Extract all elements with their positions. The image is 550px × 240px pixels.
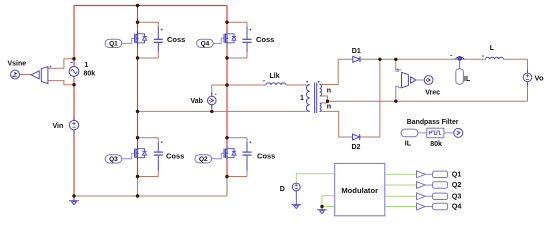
wire node B to Llk to transformer <box>212 84 310 86</box>
inductor Llk <box>266 83 286 85</box>
svg-text:Q4: Q4 <box>201 40 210 47</box>
svg-text:D1: D1 <box>352 48 361 55</box>
svg-text:Coss: Coss <box>256 35 274 44</box>
wire left rail <box>73 6 75 197</box>
label tag IL (bandpass input) <box>401 129 418 137</box>
svg-text:Vo: Vo <box>535 73 545 82</box>
diode D1 <box>353 56 360 62</box>
svg-text:Coss: Coss <box>166 151 184 160</box>
wire Vrec sense riser <box>395 59 397 101</box>
source 1/80k (modulation source) <box>69 63 79 77</box>
gate label Q4 <box>197 39 214 47</box>
gate label Q1 <box>105 39 122 47</box>
wire secondary top to D1 rail <box>320 59 353 84</box>
source D <box>292 183 300 205</box>
ground (modulator ref) <box>317 207 327 210</box>
label tag Q4 <box>433 203 448 209</box>
wire modulator output 2 <box>385 184 417 186</box>
wire Coss branch Q4 <box>227 22 247 58</box>
wire gate lead Q1 <box>122 38 135 43</box>
label tag Q3 <box>433 193 448 199</box>
svg-text:Q1: Q1 <box>109 40 118 47</box>
wire IL tag to filter <box>418 132 427 134</box>
svg-text:D: D <box>280 186 285 193</box>
transformer secondary top winding <box>320 85 322 97</box>
wire top rail <box>74 5 227 7</box>
gate label Q2 <box>195 155 212 163</box>
wire leg B (Q4/Q2) <box>226 6 228 177</box>
svg-text:n: n <box>327 103 331 110</box>
svg-text:Vrec: Vrec <box>425 89 440 96</box>
wire rectifier join riser <box>379 59 381 137</box>
wire Coss branch Q2 <box>227 138 247 177</box>
label tag Q2 <box>433 182 448 188</box>
ground (D source) <box>292 204 302 206</box>
wire Vsine sensor bottom stub <box>48 81 74 85</box>
svg-text:Q3: Q3 <box>452 192 462 201</box>
svg-text:Vsine: Vsine <box>8 61 27 68</box>
transformer polarity dots <box>306 81 308 83</box>
wire gate lead Q4 <box>212 38 224 43</box>
capacitor Coss (Q4) <box>246 22 248 58</box>
wire bottom rail <box>74 195 227 197</box>
inductor L <box>486 57 504 59</box>
probe (bandpass output) <box>454 128 463 137</box>
probe tag IL <box>459 61 461 69</box>
wire modulator output 1 <box>385 173 417 175</box>
transformer core <box>315 83 317 114</box>
wire modulator output 3 <box>385 195 417 197</box>
wire filter to probe <box>444 132 454 134</box>
filter block 80k <box>427 128 444 138</box>
block Modulator <box>335 163 385 215</box>
wire D1 cathode rail to output corner <box>361 58 528 60</box>
svg-text:Coss: Coss <box>257 151 275 160</box>
svg-text:IL: IL <box>405 140 412 147</box>
wire Vsine sensor top stub <box>48 59 74 69</box>
wire Vrec sensor hooks <box>396 70 402 88</box>
wire secondary bottom to D2 <box>320 111 353 137</box>
wire node A to transformer primary bottom <box>138 110 310 112</box>
buffer output Q1 <box>417 171 426 178</box>
svg-text:Q2: Q2 <box>452 180 462 189</box>
capacitor Coss (Q3) <box>157 138 159 177</box>
wire Vab probe leads <box>211 85 213 111</box>
svg-text:Llk: Llk <box>270 73 280 80</box>
ground (main bridge) <box>69 196 79 201</box>
svg-text:Vin: Vin <box>53 123 64 130</box>
wire Coss branch Q1 <box>138 22 159 58</box>
svg-text:1: 1 <box>85 62 89 69</box>
wire gate lead Q3 <box>122 153 135 159</box>
buffer output Q4 <box>417 203 426 210</box>
svg-text:n: n <box>327 88 331 95</box>
sensor amplifier (Vsine side) <box>31 71 39 79</box>
transistor Q3 <box>135 146 147 161</box>
wire Coss branch Q3 <box>138 138 159 177</box>
junction dots <box>136 4 139 7</box>
svg-text:Modulator: Modulator <box>341 186 378 195</box>
current sensor IL <box>457 56 462 61</box>
probe Vrec <box>424 76 433 85</box>
svg-text:+: + <box>49 64 52 69</box>
wire output right rail <box>527 59 529 101</box>
capacitor Coss (Q2) <box>246 138 248 177</box>
svg-text:+: + <box>396 67 399 72</box>
capacitor Coss (Q1) <box>157 22 159 58</box>
svg-text:Bandpass Filter: Bandpass Filter <box>407 119 459 126</box>
buffer output Q2 <box>417 182 426 189</box>
svg-text:IL: IL <box>464 76 471 83</box>
source Vin <box>69 117 78 134</box>
transistor Q2 <box>224 146 236 161</box>
buffer output Q3 <box>417 193 426 200</box>
source Vo <box>523 70 532 85</box>
wire D2 cathode to riser <box>360 136 380 138</box>
svg-text:D2: D2 <box>352 144 361 151</box>
transistor Q4 <box>224 31 236 46</box>
transformer primary winding <box>306 85 309 112</box>
svg-text:Q2: Q2 <box>199 156 208 163</box>
wire D source to modulator <box>296 174 334 183</box>
svg-text:Vab: Vab <box>191 98 203 105</box>
svg-text:80k: 80k <box>430 141 442 148</box>
voltmeter Vab <box>208 92 218 109</box>
svg-text:1: 1 <box>300 95 304 102</box>
svg-text:80k: 80k <box>84 70 96 77</box>
gate label Q3 <box>105 155 122 163</box>
wire leg A (Q1/Q3) <box>137 6 139 177</box>
transformer secondary bottom winding <box>320 103 321 111</box>
svg-text:Coss: Coss <box>167 35 185 44</box>
svg-text:Q4: Q4 <box>452 202 462 211</box>
svg-text:Q1: Q1 <box>452 170 462 179</box>
label tag Q1 <box>433 171 448 177</box>
wire center tap rail <box>320 96 528 103</box>
transistor Q1 <box>135 31 147 46</box>
wire gate lead Q2 <box>210 153 224 159</box>
wire modulator ref inputs <box>322 196 335 207</box>
svg-text:Q3: Q3 <box>109 156 118 163</box>
svg-text:L: L <box>490 45 495 52</box>
source Vsine <box>11 70 32 79</box>
sensor Vrec (trapezoid + buffer) <box>402 72 409 88</box>
wire modulator output 4 <box>385 206 417 208</box>
diode D2 <box>353 134 360 140</box>
